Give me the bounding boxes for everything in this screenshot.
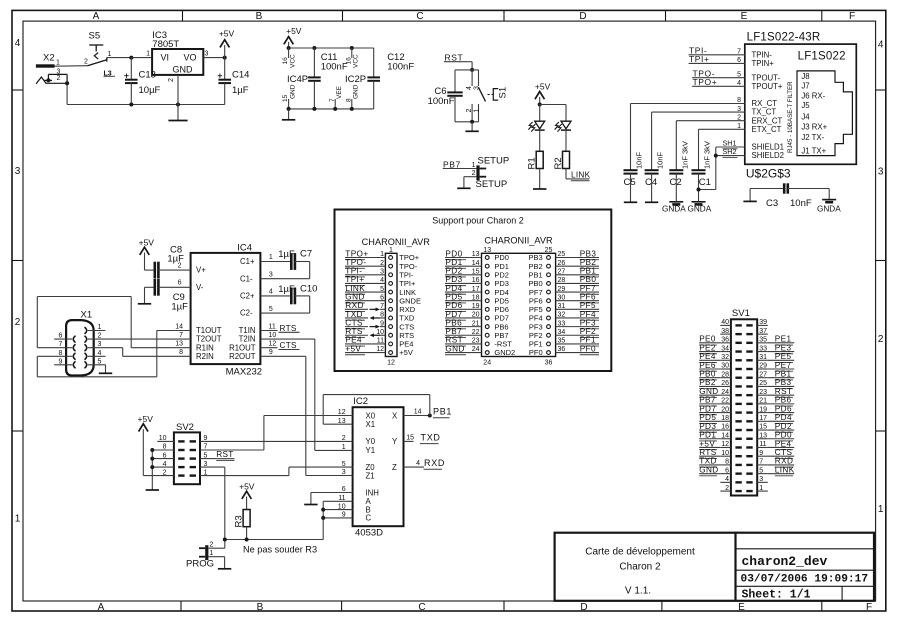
SV4 pin 26 PB2	[547, 264, 551, 268]
SV3 pin 3 TPI-	[389, 273, 393, 277]
SV1 pins 16/15	[735, 429, 741, 431]
svg-text:CHARONII_AVR: CHARONII_AVR	[484, 236, 553, 246]
svg-text:5: 5	[98, 358, 102, 365]
svg-text:Y: Y	[392, 437, 398, 446]
svg-text:RST: RST	[775, 387, 793, 396]
svg-text:36: 36	[545, 360, 553, 367]
svg-text:3: 3	[759, 476, 763, 483]
svg-text:F: F	[866, 602, 872, 613]
svg-text:C14: C14	[232, 70, 249, 81]
svg-text:25: 25	[558, 251, 566, 258]
resistor R3	[243, 510, 250, 527]
svg-text:31: 31	[759, 354, 767, 361]
svg-text:charon2_dev: charon2_dev	[742, 554, 828, 569]
svg-text:17: 17	[759, 415, 767, 422]
svg-text:PD1: PD1	[445, 258, 462, 267]
svg-text:Ne pas souder R3: Ne pas souder R3	[243, 545, 317, 555]
svg-text:15: 15	[406, 434, 414, 441]
svg-text:8: 8	[59, 350, 63, 357]
svg-text:TPO-: TPO-	[345, 258, 366, 267]
svg-text:PF7: PF7	[580, 284, 596, 293]
net label TPI+	[689, 62, 745, 64]
svg-text:J5: J5	[801, 101, 810, 110]
IC2P power pin VCC 16	[351, 48, 353, 58]
svg-text:30: 30	[558, 294, 566, 301]
SV4 pin 29 PF7	[547, 290, 551, 294]
X1 pin5 ground	[105, 365, 107, 374]
svg-text:1: 1	[146, 51, 150, 58]
svg-text:10: 10	[269, 332, 277, 339]
svg-text:TPO+: TPO+	[693, 77, 718, 87]
svg-text:SHIELD2: SHIELD2	[752, 151, 785, 160]
svg-text:X: X	[392, 411, 398, 420]
SV4 pin 24 GND	[485, 351, 489, 355]
svg-text:10: 10	[721, 450, 729, 457]
SV1 pins 18/17	[735, 420, 741, 422]
svg-text:100nF: 100nF	[387, 62, 414, 73]
svg-text:PB1: PB1	[775, 370, 792, 379]
ground symbol	[288, 109, 290, 120]
svg-text:1: 1	[98, 324, 102, 331]
svg-text:Y1: Y1	[366, 446, 376, 455]
SV1 pins 12/11	[735, 446, 741, 448]
svg-text:29: 29	[759, 363, 767, 370]
svg-text:TPI+: TPI+	[345, 275, 364, 284]
svg-text:PD3: PD3	[445, 275, 462, 284]
wire to LED2 branch	[540, 104, 566, 106]
svg-text:11: 11	[269, 323, 276, 330]
wire X1.2 to T2OUT	[106, 338, 191, 340]
svg-text:RXD: RXD	[424, 458, 445, 468]
SV1 pins 20/19	[735, 411, 741, 413]
svg-text:LF1S022: LF1S022	[798, 51, 846, 63]
svg-text:10nF: 10nF	[790, 198, 812, 209]
svg-text:VCC: VCC	[290, 54, 297, 68]
svg-text:8: 8	[345, 98, 352, 102]
frame row ticks right	[876, 89, 886, 91]
svg-text:TPI+: TPI+	[689, 54, 710, 64]
SV4 pin 14 PD1	[485, 264, 489, 268]
svg-text:C1: C1	[699, 177, 711, 188]
svg-text:C10: C10	[300, 283, 317, 294]
SV3 pin 11 PE4	[389, 342, 393, 346]
SV1 pins 6/5	[735, 472, 741, 474]
svg-text:1nF 3kV: 1nF 3kV	[703, 141, 712, 169]
SV4 pin 27 PB1	[547, 273, 551, 277]
svg-text:CTS: CTS	[775, 448, 793, 457]
IC4P power pin VCC 16	[288, 48, 290, 58]
capacitor C13 10uF	[130, 58, 132, 80]
svg-text:1µF: 1µF	[171, 302, 188, 313]
svg-text:LINK: LINK	[775, 465, 795, 474]
svg-text:Sheet: 1/1: Sheet: 1/1	[742, 588, 811, 601]
svg-text:PF0: PF0	[580, 344, 596, 353]
resistor R1	[536, 151, 543, 168]
SV3 pin 10 RTS	[389, 333, 393, 337]
net label LINK	[566, 178, 571, 180]
svg-text:11: 11	[759, 441, 766, 448]
svg-text:1: 1	[108, 51, 112, 58]
svg-text:16: 16	[282, 57, 289, 65]
svg-text:RST: RST	[445, 53, 464, 63]
svg-text:R2IN: R2IN	[196, 352, 214, 361]
svg-text:21: 21	[472, 320, 480, 327]
jumper SETUP	[476, 165, 479, 180]
svg-text:PF0: PF0	[529, 348, 543, 357]
svg-text:24: 24	[472, 346, 480, 353]
wire SH1-SH2 junction down to C1 node	[715, 147, 717, 190]
IC4P power pin GND 15	[288, 99, 290, 109]
svg-text:GND: GND	[290, 84, 297, 99]
svg-text:4: 4	[269, 289, 273, 296]
svg-text:X0: X0	[366, 411, 376, 420]
SV4 pin 35 PF1	[547, 342, 551, 346]
svg-text:4: 4	[163, 461, 167, 468]
svg-text:J8: J8	[801, 72, 809, 81]
wire PROG.1 to ground	[208, 556, 224, 558]
svg-text:1µF: 1µF	[232, 85, 249, 96]
svg-text:6: 6	[725, 467, 729, 474]
LED2 (LINK)	[561, 121, 571, 129]
svg-text:SV1: SV1	[732, 308, 750, 319]
svg-text:V+: V+	[196, 266, 206, 275]
svg-text:LINK: LINK	[571, 170, 591, 179]
svg-text:J2 TX-: J2 TX-	[801, 133, 824, 142]
svg-text:PB3: PB3	[580, 249, 597, 258]
net label TPI-	[689, 54, 745, 56]
svg-text:RTS: RTS	[280, 324, 297, 333]
svg-text:40: 40	[721, 319, 729, 326]
svg-text:J6 RX-: J6 RX-	[801, 92, 825, 101]
svg-text:26: 26	[558, 260, 566, 267]
svg-text:PE3: PE3	[775, 343, 792, 352]
SV4 pin 28 PB0	[547, 282, 551, 286]
wire R2OUT pin 9	[260, 355, 305, 357]
net label PB7	[443, 168, 477, 170]
svg-text:C1+: C1+	[240, 257, 255, 266]
svg-text:LF1S022-43R: LF1S022-43R	[747, 32, 821, 44]
C9 ground	[144, 287, 146, 304]
SV4 pin 30 PF6	[547, 299, 551, 303]
SV3 pin 7 RXD	[389, 307, 393, 311]
SV1 pins 34/33	[735, 350, 741, 352]
svg-text:15: 15	[282, 94, 289, 102]
svg-text:PB3: PB3	[775, 378, 792, 387]
svg-text:32: 32	[558, 312, 566, 319]
power rail top	[289, 47, 374, 49]
svg-text:PD0: PD0	[445, 249, 462, 258]
SV1 pins 4/3	[735, 481, 741, 483]
svg-text:RXD: RXD	[775, 457, 794, 466]
svg-text:34: 34	[721, 345, 729, 352]
svg-text:PD6: PD6	[775, 404, 792, 413]
support frame box	[335, 210, 612, 372]
SV2 left pin stubs	[157, 440, 174, 442]
wire TX_CT to C4	[652, 111, 745, 113]
SV1 pins 40/39	[735, 324, 741, 326]
ground rail below IC3	[66, 83, 68, 104]
wire X1.3 to R2IN	[106, 347, 123, 349]
svg-text:SV2: SV2	[176, 422, 194, 433]
svg-text:13: 13	[472, 251, 480, 258]
svg-text:A: A	[93, 11, 100, 22]
SV3 pin 4 TPI+	[389, 282, 393, 286]
svg-text:PB2: PB2	[699, 378, 716, 387]
svg-text:14: 14	[175, 323, 183, 330]
SV4 pin 20 PD7	[485, 316, 489, 320]
svg-text:VCC: VCC	[353, 54, 360, 68]
svg-text:19: 19	[759, 406, 767, 413]
svg-text:1: 1	[56, 59, 60, 66]
svg-text:23: 23	[759, 389, 767, 396]
PROG rail	[225, 539, 323, 541]
svg-text:2: 2	[163, 469, 167, 476]
svg-text:10nF: 10nF	[635, 151, 644, 169]
svg-text:PB7: PB7	[443, 159, 461, 169]
frame column ticks bottom	[180, 601, 182, 611]
svg-text:6: 6	[178, 280, 182, 287]
svg-text:CHARONII_AVR: CHARONII_AVR	[362, 237, 431, 247]
net label RST	[444, 61, 468, 63]
svg-text:D: D	[579, 11, 586, 22]
svg-text:20: 20	[721, 406, 729, 413]
svg-text:PB1: PB1	[433, 407, 452, 417]
svg-text:Z: Z	[392, 463, 397, 472]
IC2P power pin VEE 7	[334, 99, 336, 109]
svg-text:PD4: PD4	[775, 413, 792, 422]
SV1 pins 10/9	[735, 455, 741, 457]
SV1 pins 28/27	[735, 377, 741, 379]
SV4 pin 34 PF2	[547, 333, 551, 337]
svg-text:31: 31	[558, 303, 566, 310]
svg-text:5: 5	[269, 306, 273, 313]
SV3 pin 1 TPO+	[389, 256, 393, 260]
net label SH1	[716, 146, 745, 148]
svg-text:37: 37	[759, 328, 767, 335]
push button S1	[471, 70, 473, 86]
capacitor C6 100nF	[454, 70, 456, 93]
svg-text:TXD: TXD	[699, 457, 717, 466]
svg-text:VEE: VEE	[336, 85, 343, 99]
svg-text:1: 1	[878, 504, 884, 515]
svg-text:4: 4	[878, 40, 884, 51]
wire IC3 VO to +5V node	[203, 57, 224, 59]
svg-text:PB6: PB6	[775, 396, 792, 405]
svg-text:S5: S5	[89, 31, 101, 42]
svg-text:100nF: 100nF	[321, 62, 348, 73]
svg-text:2: 2	[178, 262, 182, 269]
svg-text:10nF: 10nF	[656, 151, 665, 169]
svg-text:35: 35	[759, 337, 767, 344]
ground rail below decoupling caps	[289, 108, 374, 110]
svg-text:Carte de développement: Carte de développement	[585, 547, 695, 558]
svg-text:PE0: PE0	[699, 335, 716, 344]
svg-text:IC4: IC4	[237, 243, 252, 254]
svg-text:PE7: PE7	[775, 361, 792, 370]
wire X1.7 to R1IN via top route	[37, 347, 54, 349]
svg-text:X2: X2	[43, 53, 55, 64]
svg-text:29: 29	[558, 286, 566, 293]
svg-text:J4: J4	[801, 113, 810, 122]
svg-text:1: 1	[15, 514, 21, 525]
svg-text:9: 9	[759, 450, 763, 457]
svg-text:SETUP: SETUP	[478, 156, 510, 167]
svg-text:PROG: PROG	[186, 559, 214, 570]
svg-text:16: 16	[721, 424, 729, 431]
svg-text:Support pour Charon 2: Support pour Charon 2	[432, 216, 524, 226]
svg-text:2: 2	[15, 317, 21, 328]
svg-text:SETUP: SETUP	[476, 179, 508, 190]
svg-text:4: 4	[466, 86, 473, 90]
wire X1.8 to T1OUT via bottom route	[37, 355, 54, 357]
net label CTS at R1OUT	[260, 347, 277, 349]
svg-text:X1: X1	[366, 420, 376, 429]
IC3 GND pin to ground	[177, 75, 179, 121]
svg-text:PE6: PE6	[699, 361, 716, 370]
svg-text:PE5: PE5	[775, 352, 792, 361]
svg-text:D: D	[580, 602, 587, 613]
svg-text:8: 8	[163, 444, 167, 451]
svg-text:+5V: +5V	[399, 348, 413, 357]
svg-text:MAX232: MAX232	[226, 367, 262, 378]
svg-text:R1: R1	[527, 157, 538, 169]
SV1 pins 30/29	[735, 368, 741, 370]
IC2 A B C control pins to PROG rail	[323, 500, 352, 502]
svg-text:PD4: PD4	[445, 284, 462, 293]
svg-text:PD5: PD5	[699, 413, 716, 422]
svg-text:8: 8	[725, 459, 729, 466]
svg-text:27: 27	[558, 268, 566, 275]
SV4 pin 13 PD0	[485, 256, 489, 260]
title block row dividers	[736, 548, 875, 550]
svg-text:10: 10	[159, 435, 167, 442]
svg-text:13: 13	[483, 247, 491, 254]
svg-text:2: 2	[466, 109, 473, 113]
SV3 pin 5 LINK	[389, 290, 393, 294]
wire SV2.1 to IC2 Z0	[200, 475, 289, 477]
wire SV2.3 down to PROG rail	[200, 466, 225, 468]
SV3 pin 12 +5V	[389, 351, 393, 355]
svg-text:6: 6	[59, 333, 63, 340]
svg-text:RTS: RTS	[699, 448, 717, 457]
wire ETX_CT to C1	[699, 128, 745, 130]
svg-text:GND: GND	[173, 65, 194, 75]
svg-text:TPOUT+: TPOUT+	[752, 82, 783, 91]
SV4 pin 23 RST	[485, 342, 489, 346]
svg-text:LINK: LINK	[345, 284, 365, 293]
SV4 pin 25 PB3	[547, 256, 551, 260]
wire T2IN to Y1	[314, 339, 316, 450]
svg-text:100nF: 100nF	[428, 96, 455, 107]
SV1 pins 2/1	[735, 490, 741, 492]
svg-text:R3: R3	[233, 515, 244, 527]
svg-text:2: 2	[98, 333, 102, 340]
svg-text:V 1.1.: V 1.1.	[625, 586, 651, 597]
svg-text:4: 4	[416, 460, 420, 467]
SV3 pin 2 TPO-	[389, 264, 393, 268]
SV2 pins 8 6 4 to ground	[151, 450, 153, 490]
svg-text:2: 2	[84, 59, 88, 66]
svg-text:C: C	[418, 602, 425, 613]
svg-text:C2+: C2+	[240, 292, 255, 301]
svg-text:8: 8	[179, 349, 183, 356]
wire PROG.2 up to rail	[208, 547, 224, 549]
net label RXD at Z output	[404, 466, 425, 468]
wire S1 to ground	[455, 121, 479, 123]
svg-text:38: 38	[721, 328, 729, 335]
svg-text:15: 15	[759, 424, 767, 431]
SV4 pin 17 PD4	[485, 290, 489, 294]
svg-text:C13: C13	[139, 70, 156, 81]
svg-text:C2-: C2-	[240, 309, 253, 318]
svg-text:GNDA: GNDA	[688, 204, 712, 213]
svg-text:16: 16	[345, 57, 352, 65]
SV4 pin 36 PF0	[547, 351, 551, 355]
svg-text:C2: C2	[670, 177, 682, 188]
svg-text:PB0: PB0	[699, 370, 716, 379]
svg-text:34: 34	[558, 329, 566, 336]
svg-text:7: 7	[329, 98, 336, 102]
svg-text:14: 14	[472, 260, 480, 267]
svg-text:14: 14	[721, 432, 729, 439]
svg-text:1: 1	[472, 162, 476, 169]
svg-text:32: 32	[721, 354, 729, 361]
svg-text:18: 18	[472, 294, 480, 301]
svg-text:6: 6	[163, 452, 167, 459]
svg-text:33: 33	[759, 345, 767, 352]
svg-text:Z1: Z1	[366, 471, 375, 480]
svg-text:3: 3	[15, 166, 21, 177]
svg-text:C7: C7	[300, 249, 312, 260]
svg-text:25: 25	[759, 380, 767, 387]
svg-text:TPI-: TPI-	[345, 267, 362, 276]
svg-text:+5V: +5V	[239, 481, 255, 491]
wire T2IN pin 10	[260, 338, 314, 340]
svg-text:12: 12	[387, 360, 395, 367]
svg-text:13: 13	[759, 432, 767, 439]
svg-text:F: F	[849, 11, 855, 22]
svg-text:+5V: +5V	[138, 414, 154, 424]
svg-text:PD7: PD7	[699, 404, 716, 413]
svg-text:4053D: 4053D	[355, 528, 383, 539]
C3 right ground GNDA	[828, 189, 830, 200]
wire S5 to IC3 VI	[107, 57, 152, 59]
svg-text:10µF: 10µF	[139, 85, 161, 96]
SV4 pin 22 PB7	[485, 333, 489, 337]
svg-text:PE4: PE4	[699, 352, 716, 361]
svg-text:1: 1	[474, 109, 481, 113]
svg-text:3: 3	[269, 271, 273, 278]
svg-text:PB1: PB1	[580, 267, 597, 276]
svg-text:CTS: CTS	[280, 341, 298, 350]
svg-text:28: 28	[558, 277, 566, 284]
svg-text:4: 4	[98, 350, 102, 357]
svg-text:VO: VO	[184, 53, 197, 63]
svg-text:Charon 2: Charon 2	[619, 562, 661, 573]
svg-text:IC2: IC2	[353, 396, 368, 407]
SV1 pins 14/13	[735, 438, 741, 440]
svg-text:R2: R2	[553, 157, 564, 169]
svg-text:J7: J7	[801, 82, 809, 91]
frame column ticks top	[182, 10, 184, 21]
svg-text:36: 36	[721, 337, 729, 344]
SV3 pin 9 CTS	[389, 325, 393, 329]
svg-text:PD3: PD3	[699, 422, 716, 431]
svg-text:B: B	[257, 602, 264, 613]
IC2P power pin GND 8	[351, 99, 353, 109]
svg-text:27: 27	[759, 371, 767, 378]
svg-text:IC2P: IC2P	[345, 74, 366, 85]
